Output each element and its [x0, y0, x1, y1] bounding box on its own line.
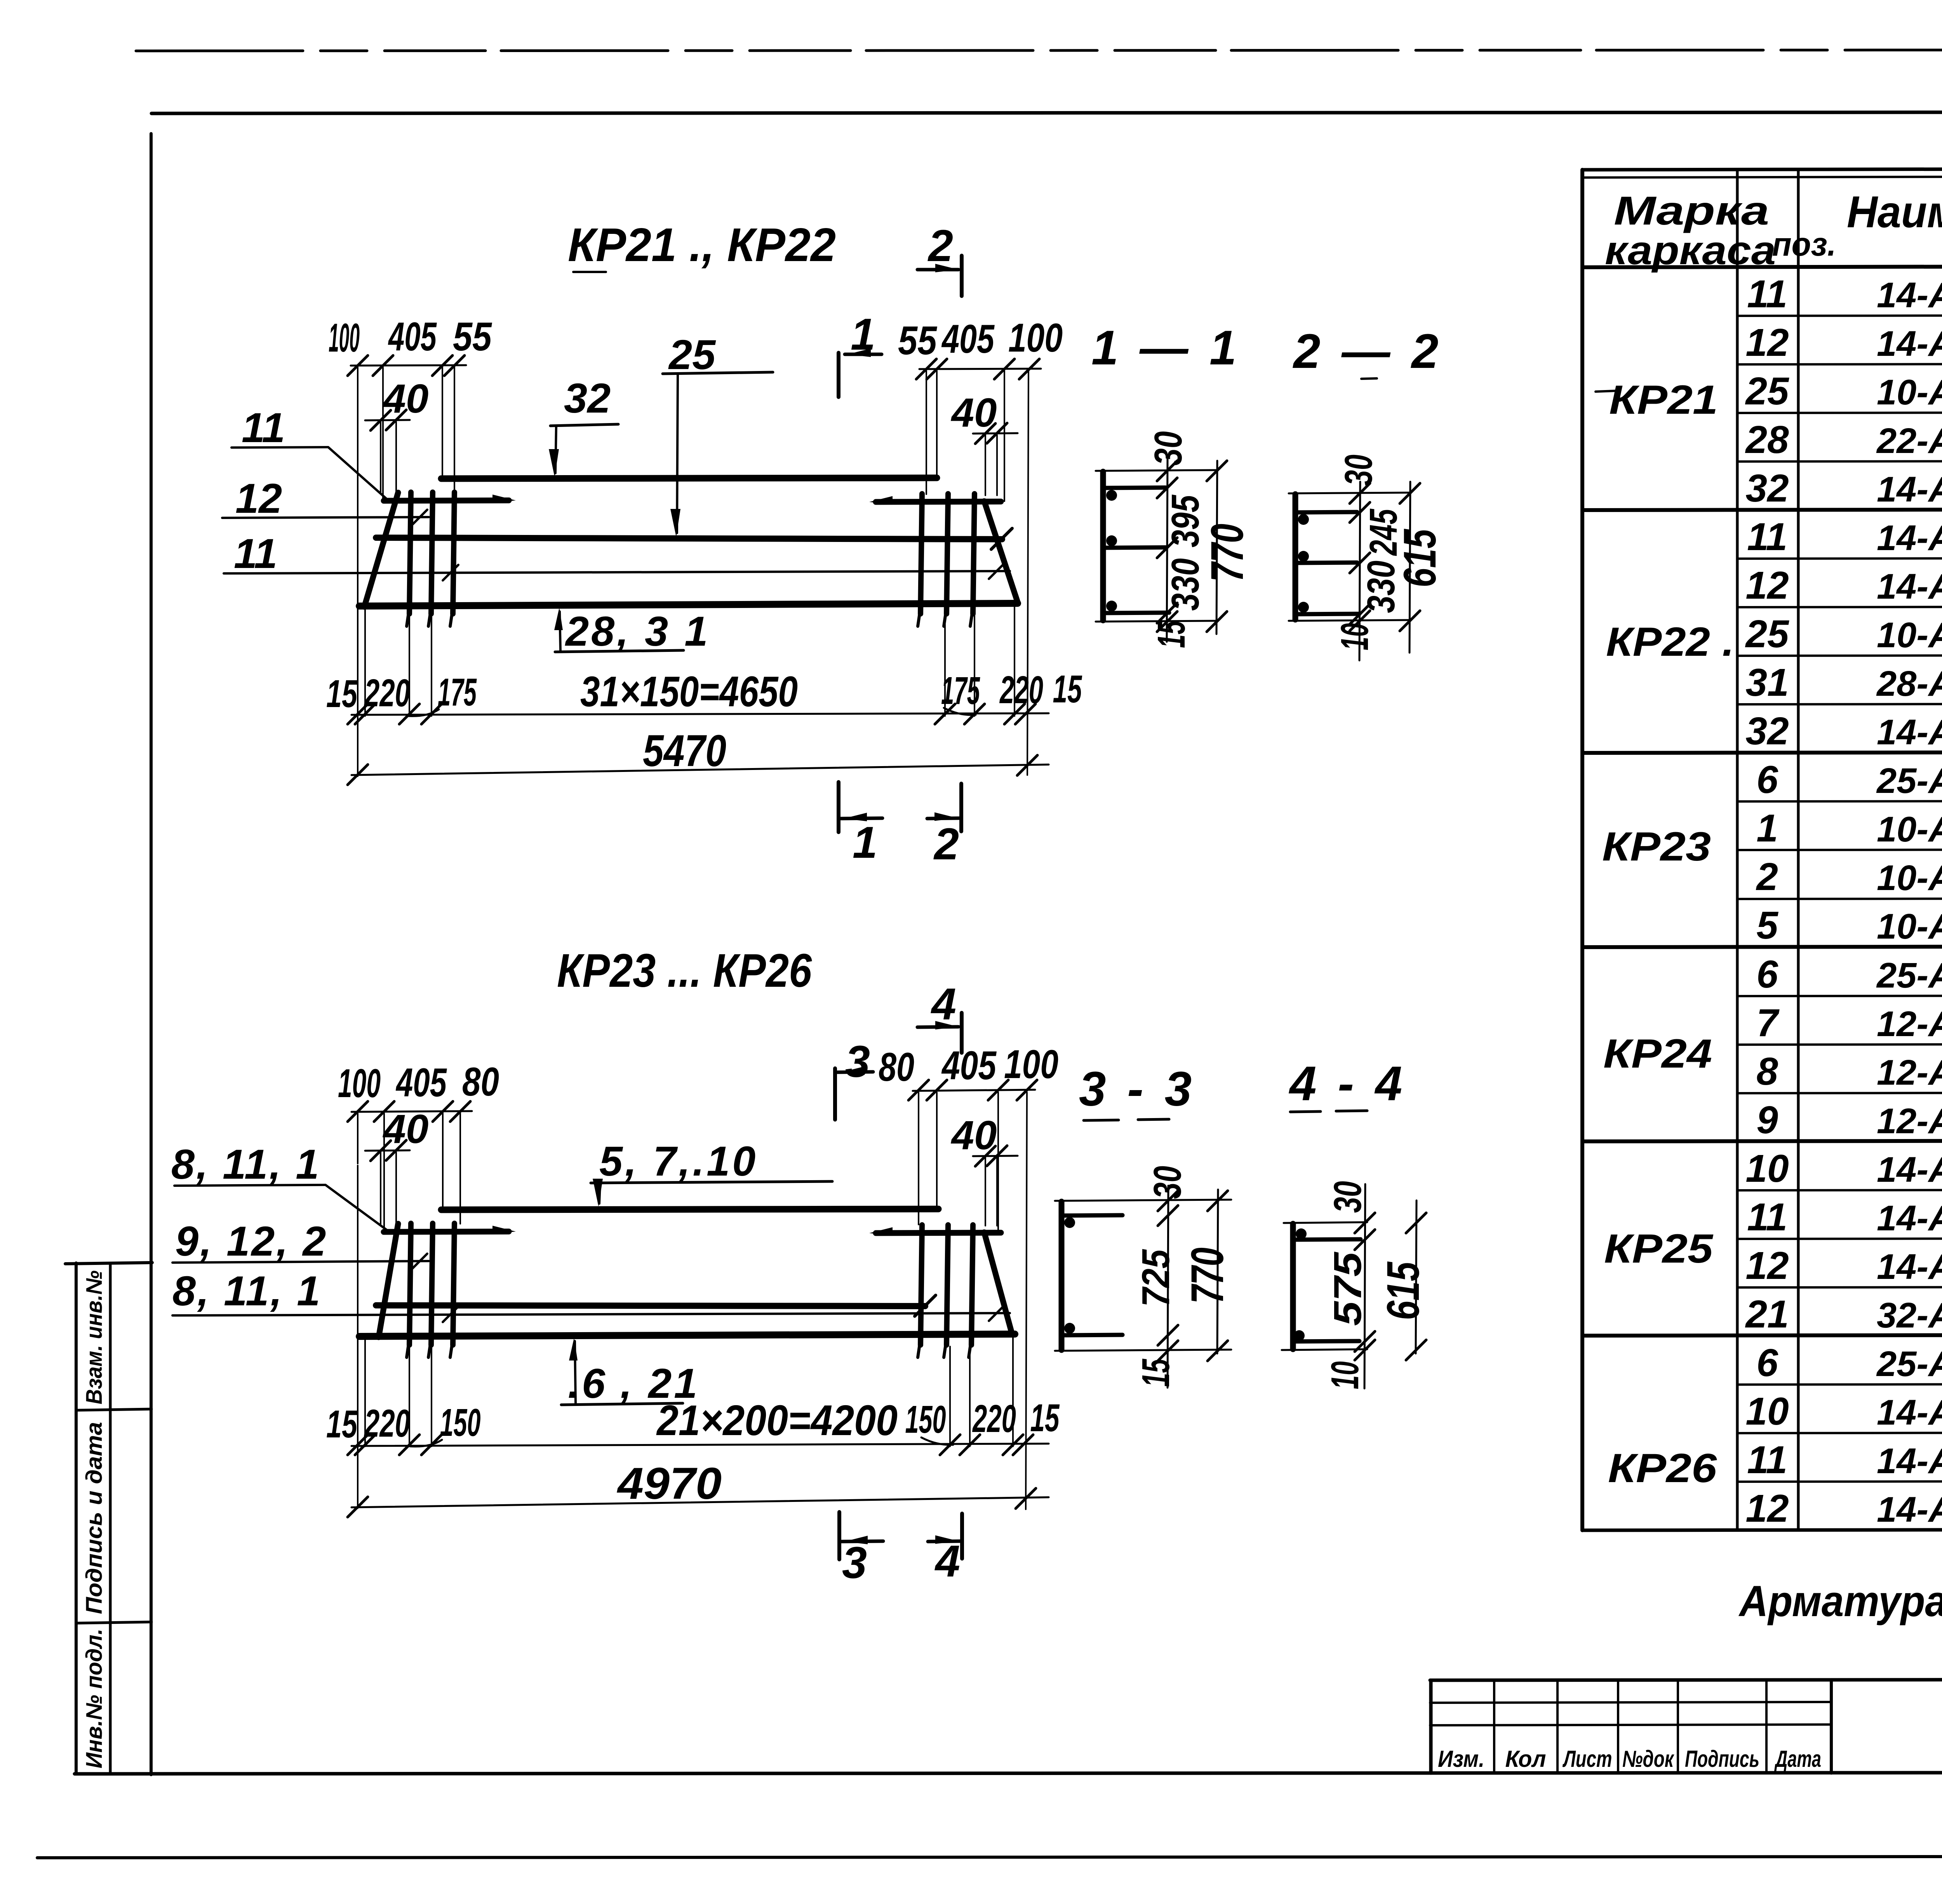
- table row divider: [1737, 995, 1942, 996]
- svg-text:Марка: Марка: [1614, 188, 1769, 233]
- svg-text:КР23: КР23: [1602, 824, 1711, 869]
- section 1-1 stirrup vertical bar: [1100, 472, 1106, 620]
- title block top horizontal line: [1430, 1679, 1942, 1680]
- svg-text:КР21: КР21: [1609, 377, 1718, 423]
- svg-text:100: 100: [329, 315, 360, 361]
- cage КР23-26 top bar pos.5/7/10: [441, 1209, 938, 1210]
- svg-text:14-АШ , ℓ = 770: 14-АШ , ℓ = 770: [1877, 1198, 1942, 1238]
- top drawing right edge long extension vertical: [1027, 371, 1028, 775]
- bottom drawing right edge long extension vertical: [1026, 1092, 1027, 1509]
- svg-text:11: 11: [1747, 1195, 1787, 1239]
- svg-text:10: 10: [1333, 623, 1376, 650]
- table row divider: [1737, 412, 1942, 413]
- svg-text:220: 220: [999, 668, 1043, 712]
- svg-text:10-АШ , ℓ = 5360: 10-АШ , ℓ = 5360: [1877, 615, 1942, 655]
- svg-text:25-АШ , ℓ = 4970: 25-АШ , ℓ = 4970: [1876, 1344, 1942, 1384]
- cage stirrup pos.11 right x=2509: [973, 494, 974, 614]
- section mark 2 (top) arrow line: [917, 268, 959, 272]
- svg-text:№док: №док: [1622, 1746, 1674, 1772]
- svg-text:405: 405: [396, 1060, 447, 1105]
- table row divider: [1737, 898, 1942, 899]
- svg-text:11: 11: [1747, 1438, 1787, 1482]
- bottom drawing right top dimension line 80/405/100: [913, 1090, 1035, 1091]
- dashes under section 3-3 title: [1084, 1120, 1119, 1120]
- svg-text:615: 615: [1378, 1261, 1429, 1320]
- frame left vertical line: [150, 134, 153, 1775]
- section 4-4 outer dimension line 615: [1416, 1200, 1416, 1354]
- svg-text:150: 150: [905, 1398, 946, 1441]
- svg-text:32: 32: [1745, 709, 1789, 753]
- table outer top border (double): [1582, 168, 1942, 170]
- table row divider: [1737, 1481, 1942, 1482]
- svg-text:15: 15: [326, 672, 358, 716]
- svg-text:10-АШ , ℓ = 5360: 10-АШ , ℓ = 5360: [1877, 373, 1942, 412]
- section 2-2 stirrup vertical bar: [1293, 494, 1298, 620]
- svg-text:15: 15: [1053, 667, 1082, 711]
- table group divider line y=3438: [1582, 1334, 1942, 1336]
- svg-text:14-АШ , ℓ = 3960: 14-АШ , ℓ = 3960: [1877, 1150, 1942, 1190]
- svg-text:11: 11: [234, 530, 277, 577]
- svg-text:770: 770: [1202, 524, 1253, 582]
- svg-text:Изм.: Изм.: [1438, 1746, 1484, 1772]
- svg-text:7: 7: [1756, 1001, 1780, 1045]
- small dash under section 2-2 title: [1361, 378, 1377, 379]
- svg-text:30: 30: [1147, 431, 1190, 465]
- section 2-2 top extension line: [1289, 493, 1411, 493]
- svg-text:55: 55: [898, 318, 938, 363]
- section mark 3 (bottom): [837, 1512, 841, 1559]
- svg-text:9, 12, 2: 9, 12, 2: [175, 1218, 327, 1265]
- small dash under КР21: [573, 271, 606, 273]
- table row divider: [1737, 461, 1942, 462]
- svg-text:1: 1: [1756, 807, 1778, 850]
- overall dimension 4970: [352, 1497, 1049, 1507]
- svg-text:14-АШ , ℓ = 615: 14-АШ , ℓ = 615: [1877, 324, 1942, 364]
- svg-text:25: 25: [1745, 612, 1789, 656]
- svg-text:14-АШ , ℓ = 615: 14-АШ , ℓ = 615: [1877, 1247, 1942, 1287]
- cage КР21/22 upper end bar left pos.12: [384, 500, 509, 501]
- svg-text:6: 6: [1756, 953, 1778, 996]
- svg-text:14-АШ , ℓ = 770: 14-АШ , ℓ = 770: [1877, 275, 1942, 315]
- title block revision table right vertical: [1830, 1680, 1833, 1773]
- svg-text:8: 8: [1756, 1050, 1778, 1093]
- section 3-3 top hook bar: [1061, 1215, 1122, 1216]
- section 3-3 inner dimension line: [1168, 1186, 1168, 1388]
- svg-text:14-АШ , ℓ = 4460: 14-АШ , ℓ = 4460: [1877, 712, 1942, 752]
- svg-text:220: 220: [364, 671, 410, 715]
- section 3-3 outer dimension line 770: [1217, 1190, 1218, 1354]
- slash at right end of middle bar: [991, 528, 1012, 549]
- table vertical border left: [1580, 170, 1584, 1530]
- svg-text:3: 3: [845, 1037, 870, 1087]
- svg-text:каркаса: каркаса: [1605, 228, 1776, 273]
- cage bent end bar left: [379, 1224, 398, 1337]
- extension verticals down from cage to bottom dim line: [357, 1338, 358, 1446]
- svg-text:31×150=4650: 31×150=4650: [580, 668, 798, 716]
- cage stirrup left x=1058 (bottom drawing): [409, 1223, 411, 1345]
- svg-text:Взам. инв.№: Взам. инв.№: [82, 1270, 107, 1404]
- svg-text:100: 100: [1004, 1042, 1058, 1087]
- svg-text:770: 770: [1182, 1247, 1233, 1304]
- cage bent end bar right: [984, 501, 1018, 603]
- svg-text:5, 7,.10: 5, 7,.10: [599, 1138, 758, 1185]
- svg-text:КР22 .: КР22 .: [1606, 619, 1734, 665]
- table outer bottom border: [1582, 1529, 1942, 1530]
- svg-text:28-АШ , ℓ = 5470: 28-АШ , ℓ = 5470: [1876, 664, 1942, 704]
- svg-text:КР24: КР24: [1603, 1031, 1712, 1077]
- svg-text:КР25: КР25: [1604, 1226, 1714, 1272]
- svg-text:25: 25: [1745, 369, 1789, 413]
- svg-text:12: 12: [1745, 1244, 1789, 1287]
- svg-text:100: 100: [1008, 315, 1063, 361]
- cage КР23-26 upper end bar right: [876, 1233, 1001, 1233]
- svg-text:2: 2: [1756, 855, 1778, 899]
- table row divider: [1737, 558, 1942, 559]
- svg-text:поз.: поз.: [1772, 226, 1836, 263]
- section 1-1 middle hook bar: [1103, 547, 1166, 548]
- svg-text:30: 30: [1146, 1166, 1189, 1199]
- svg-text:725: 725: [1134, 1249, 1178, 1307]
- section 1-1 bottom extension line: [1096, 621, 1218, 622]
- title block revision table vertical 5: [1765, 1680, 1768, 1773]
- svg-text:10: 10: [1323, 1361, 1367, 1389]
- cage stirrup pos.11 right x=2374: [921, 494, 922, 614]
- section 3-3 bottom extension line: [1055, 1350, 1231, 1351]
- section 3-3 bottom hook bar: [1061, 1335, 1122, 1335]
- svg-text:10: 10: [1745, 1390, 1789, 1433]
- svg-text:1: 1: [853, 818, 877, 868]
- title block revision table vertical 2: [1556, 1680, 1559, 1773]
- title block revision table vertical 1: [1493, 1680, 1495, 1773]
- svg-text:Кол: Кол: [1505, 1746, 1546, 1772]
- section mark 1 (top) cut line: [837, 353, 840, 397]
- small dash left of КР21: [1596, 391, 1616, 392]
- overall dimension 5470: [352, 765, 1049, 775]
- svg-text:14-АШ , ℓ = 615: 14-АШ , ℓ = 615: [1877, 1490, 1942, 1529]
- svg-text:11: 11: [1747, 272, 1787, 316]
- svg-text:25-АШ , ℓ = 4970: 25-АШ , ℓ = 4970: [1876, 761, 1942, 801]
- stamp divider Взам/Подпись: [76, 1409, 151, 1410]
- table row divider: [1737, 801, 1942, 801]
- table group divider line y=2438: [1582, 946, 1942, 947]
- svg-text:Инв.№ подл.: Инв.№ подл.: [82, 1629, 107, 1768]
- top drawing bottom dimension line 15/220/175/31x150/175/220/15: [352, 713, 1049, 715]
- svg-text:80: 80: [462, 1059, 499, 1104]
- leader curls from 175 labels to ticks: [407, 709, 439, 716]
- cage stirrup left x=1170 (bottom drawing): [453, 1223, 454, 1345]
- svg-text:150: 150: [440, 1401, 481, 1444]
- table row divider: [1737, 1432, 1942, 1433]
- svg-text:31: 31: [1745, 661, 1789, 704]
- cage КР21/22 upper end bar right pos.12: [876, 502, 1001, 502]
- top drawing right top dimension line 55/405/100: [919, 369, 1041, 369]
- table row divider: [1737, 1384, 1942, 1385]
- svg-text:175: 175: [438, 671, 477, 714]
- cage stirrup pos.11 right x=2441: [947, 494, 948, 614]
- svg-text:9: 9: [1756, 1098, 1778, 1142]
- svg-text:6: 6: [1756, 758, 1778, 801]
- table group divider line y=2938: [1582, 1140, 1942, 1141]
- section mark 2 (top) cut line: [960, 256, 964, 296]
- bottom drawing extension verticals from top dims: [357, 1113, 358, 1164]
- svg-text:40: 40: [383, 376, 429, 422]
- bottom drawing left top dimension line 100/405/80: [352, 1111, 472, 1112]
- table row divider: [1737, 1287, 1942, 1287]
- svg-text:22-АШ , ℓ = 5470: 22-АШ , ℓ = 5470: [1876, 421, 1942, 461]
- cage stirrup right x=2374 (bottom drawing): [921, 1225, 922, 1345]
- title block revision table row line 2: [1430, 1725, 1831, 1725]
- svg-text:1 — 1: 1 — 1: [1091, 321, 1241, 375]
- svg-text:28: 28: [1745, 418, 1789, 462]
- slash at right end of middle bar: [915, 1295, 936, 1316]
- svg-text:КР23 ... КР26: КР23 ... КР26: [557, 944, 812, 997]
- table row divider: [1737, 1092, 1942, 1093]
- svg-text:12-АШ , ℓ = 3960: 12-АШ , ℓ = 3960: [1877, 1004, 1942, 1044]
- cage КР23-26 upper end bar left: [384, 1232, 509, 1232]
- section 1-1 bottom hook bar: [1103, 613, 1169, 613]
- section 2-2 middle hook bar: [1295, 563, 1357, 563]
- svg-text:12: 12: [235, 475, 282, 522]
- svg-text:32: 32: [1745, 467, 1789, 510]
- svg-text:КР26: КР26: [1608, 1446, 1717, 1491]
- svg-text:15: 15: [1134, 1359, 1178, 1387]
- table group divider line y=1313: [1582, 509, 1942, 510]
- section mark 4 (bottom): [960, 1514, 964, 1559]
- cage КР21/22 middle bar pos.25: [376, 538, 1002, 539]
- svg-text:15: 15: [326, 1402, 358, 1446]
- top drawing left top dimension line 100/405/55: [351, 365, 466, 366]
- svg-text:55: 55: [453, 314, 492, 359]
- table row divider: [1737, 364, 1942, 364]
- svg-text:220: 220: [972, 1397, 1016, 1441]
- dashes under section 4-4 title: [1290, 1111, 1321, 1112]
- svg-text:30: 30: [1326, 1181, 1369, 1213]
- section 2-2 bottom hook bar: [1295, 614, 1359, 614]
- svg-text:405: 405: [388, 314, 437, 359]
- bottom drawing bottom dimension line 15/220/150/21x200/150/220/15: [352, 1444, 1049, 1446]
- svg-text:330: 330: [1164, 558, 1207, 611]
- svg-text:4 - 4: 4 - 4: [1288, 1057, 1406, 1111]
- section 4-4 stirrup vertical bar: [1290, 1224, 1296, 1349]
- svg-text:220: 220: [364, 1402, 410, 1445]
- svg-text:32-АШ , ℓ = 4970: 32-АШ , ℓ = 4970: [1877, 1296, 1942, 1335]
- svg-text:8, 11, 1: 8, 11, 1: [171, 1141, 320, 1188]
- svg-text:2: 2: [927, 221, 953, 271]
- cage КР23-26 bottom bar pos.6/21: [359, 1334, 1015, 1336]
- sheet top cut dash-dot line: [136, 50, 1942, 51]
- svg-text:5470: 5470: [643, 726, 726, 776]
- cage bent end bar left: [364, 493, 398, 607]
- svg-text:Подпись: Подпись: [1685, 1746, 1759, 1772]
- svg-text:Арматура класса А-Ш по ГОСТ 57: Арматура класса А-Ш по ГОСТ 5781-82: [1738, 1577, 1942, 1625]
- svg-text:15: 15: [1150, 620, 1193, 648]
- title block revision table vertical 3: [1617, 1680, 1619, 1773]
- svg-text:5: 5: [1756, 904, 1778, 947]
- table row divider: [1737, 1190, 1942, 1190]
- section 4-4 inner dimension line: [1364, 1184, 1365, 1388]
- svg-text:405: 405: [941, 1043, 997, 1088]
- section 4-4 bottom extension line: [1282, 1349, 1367, 1350]
- table vertical border Марка/поз: [1736, 170, 1739, 1530]
- cage stirrup pos.11 left x=1114: [431, 492, 433, 614]
- sheet bottom edge line: [37, 1856, 1942, 1858]
- svg-text:12: 12: [1745, 564, 1789, 607]
- title block revision table left vertical: [1429, 1680, 1433, 1773]
- section mark 4 (top) arrow line: [917, 1027, 959, 1027]
- svg-text:80: 80: [879, 1045, 914, 1090]
- stamp divider Подпись/Инв: [76, 1622, 151, 1623]
- svg-text:4: 4: [934, 1536, 960, 1586]
- table row divider: [1737, 1238, 1942, 1239]
- section mark 3 (top) cut line: [833, 1068, 837, 1120]
- svg-text:3: 3: [842, 1538, 867, 1588]
- svg-text:2: 2: [933, 819, 959, 869]
- svg-text:575: 575: [1326, 1251, 1369, 1326]
- svg-text:10-АШ , ℓ = 615: 10-АШ , ℓ = 615: [1877, 858, 1942, 898]
- svg-text:615: 615: [1394, 528, 1446, 587]
- stamp column left vertical: [75, 1263, 78, 1774]
- svg-text:Лист: Лист: [1562, 1746, 1612, 1772]
- section mark 3 (top) arrow line: [837, 1072, 873, 1072]
- section 3-3 top extension line: [1055, 1200, 1231, 1201]
- cage stirrup pos.11 left x=1170: [453, 492, 454, 614]
- section 1-1 inner dimension line: [1167, 458, 1168, 642]
- table header bottom line: [1582, 266, 1942, 267]
- section 2-2 inner dimension line: [1359, 482, 1360, 660]
- section 1-1 outer dimension line 770: [1216, 461, 1217, 634]
- cage bent end bar right: [984, 1232, 1012, 1334]
- section 2-2 top hook bar: [1295, 512, 1357, 512]
- svg-text:25-АШ , ℓ = 4970: 25-АШ , ℓ = 4970: [1876, 956, 1942, 995]
- svg-text:8, 11, 1: 8, 11, 1: [172, 1267, 322, 1314]
- svg-text:3 - 3: 3 - 3: [1079, 1062, 1195, 1116]
- svg-text:11: 11: [242, 404, 285, 451]
- frame bottom horizontal line: [75, 1772, 1942, 1774]
- cage КР21/22 bottom bar pos.28/31: [359, 603, 1018, 606]
- svg-text:12: 12: [1745, 321, 1789, 364]
- svg-text:40: 40: [383, 1106, 429, 1152]
- svg-text:12-АШ , ℓ = 770: 12-АШ , ℓ = 770: [1877, 1053, 1942, 1092]
- svg-text:405: 405: [941, 317, 995, 362]
- cage stirrup right x=2505 (bottom drawing): [971, 1225, 973, 1345]
- svg-text:21×200=4200: 21×200=4200: [656, 1397, 898, 1444]
- section 4-4 bottom hook bar: [1293, 1341, 1359, 1341]
- section 2-2 rebar dots: [1298, 514, 1309, 525]
- table vertical border поз/Наименование: [1797, 170, 1800, 1530]
- extension verticals down from cage to bottom dim line: [357, 608, 358, 716]
- svg-text:10: 10: [1745, 1147, 1789, 1190]
- table row divider: [1737, 1044, 1942, 1045]
- section 1-1 top hook bar: [1103, 488, 1166, 488]
- frame top horizontal line: [151, 112, 1942, 113]
- section mark 1 (bottom): [837, 782, 840, 832]
- title block revision table vertical 4: [1677, 1680, 1679, 1773]
- section 2-2 outer dimension line 615: [1410, 482, 1410, 653]
- section 1-1 rebar dots: [1106, 490, 1117, 501]
- svg-text:6: 6: [1756, 1341, 1778, 1385]
- cage stirrup right x=2441 (bottom drawing): [947, 1225, 948, 1345]
- svg-text:14-АШ , ℓ = 4460: 14-АШ , ℓ = 4460: [1877, 470, 1942, 509]
- top drawing extension verticals from top dims: [357, 368, 358, 435]
- svg-text:14-АШ , ℓ = 3960: 14-АШ , ℓ = 3960: [1877, 1393, 1942, 1432]
- svg-text:395: 395: [1164, 495, 1207, 547]
- top drawing left edge long extension vertical: [357, 435, 358, 776]
- section 3-3 stirrup vertical bar: [1059, 1202, 1065, 1350]
- svg-text:10-АШ , ℓ = 3960: 10-АШ , ℓ = 3960: [1877, 907, 1942, 946]
- section 3-3 rebar dots: [1064, 1217, 1075, 1228]
- svg-text:12-АШ , ℓ = 615: 12-АШ , ℓ = 615: [1877, 1101, 1942, 1141]
- section mark 1 (top) arrow line: [845, 353, 882, 356]
- cage stirrup pos.11 left x=1058: [409, 492, 411, 614]
- svg-text:4970: 4970: [617, 1459, 722, 1509]
- svg-text:100: 100: [338, 1061, 381, 1106]
- svg-text:11: 11: [1747, 515, 1787, 559]
- svg-text:28, 3 1: 28, 3 1: [565, 608, 710, 655]
- svg-text:Наименование: Наименование: [1847, 187, 1942, 237]
- section 1-1 top extension line: [1096, 470, 1218, 471]
- table row divider: [1737, 655, 1942, 656]
- section mark 4 (top) cut line: [960, 1013, 964, 1053]
- svg-text:14-АШ , ℓ = 770: 14-АШ , ℓ = 770: [1877, 1441, 1942, 1481]
- cage КР21/22 top bar pos.32: [441, 478, 937, 479]
- svg-text:15: 15: [1030, 1396, 1060, 1440]
- cage stirrup left x=1114 (bottom drawing): [431, 1223, 433, 1345]
- svg-text:14-АШ , ℓ = 770: 14-АШ , ℓ = 770: [1877, 518, 1942, 558]
- svg-text:КР21 ., КР22: КР21 ., КР22: [568, 218, 836, 271]
- bottom drawing left edge long extension vertical: [357, 1165, 358, 1508]
- section 4-4 top extension line: [1284, 1222, 1367, 1223]
- svg-text:10-АШ , ℓ = 770: 10-АШ , ℓ = 770: [1877, 810, 1942, 849]
- svg-text:14-АШ , ℓ = 615: 14-АШ , ℓ = 615: [1877, 567, 1942, 606]
- section 2-2 bottom extension line: [1289, 620, 1411, 621]
- cage КР23-26 middle bar pos.9/12/2 level: [376, 1305, 925, 1306]
- stamp column inner vertical divider: [109, 1263, 112, 1774]
- svg-text:4: 4: [931, 979, 956, 1029]
- svg-text:12: 12: [1745, 1487, 1789, 1530]
- title block revision table row line 1: [1430, 1702, 1831, 1703]
- svg-text:32: 32: [564, 375, 611, 422]
- section 4-4 top hook bar: [1293, 1239, 1361, 1240]
- svg-text:30: 30: [1337, 455, 1380, 486]
- section mark 2 (bottom): [959, 784, 963, 831]
- svg-text:25: 25: [668, 331, 716, 378]
- svg-text:21: 21: [1745, 1293, 1789, 1336]
- section 4-4 rebar dots: [1296, 1228, 1307, 1239]
- table row divider: [1737, 704, 1942, 704]
- table row divider: [1737, 315, 1942, 316]
- svg-text:Подпись и дата: Подпись и дата: [82, 1422, 107, 1614]
- table group divider line y=1938: [1582, 752, 1942, 753]
- svg-text:Дата: Дата: [1774, 1746, 1821, 1772]
- stamp column top line: [65, 1263, 152, 1264]
- svg-text:2 — 2: 2 — 2: [1293, 324, 1443, 378]
- table row divider: [1737, 849, 1942, 850]
- table row divider: [1737, 606, 1942, 607]
